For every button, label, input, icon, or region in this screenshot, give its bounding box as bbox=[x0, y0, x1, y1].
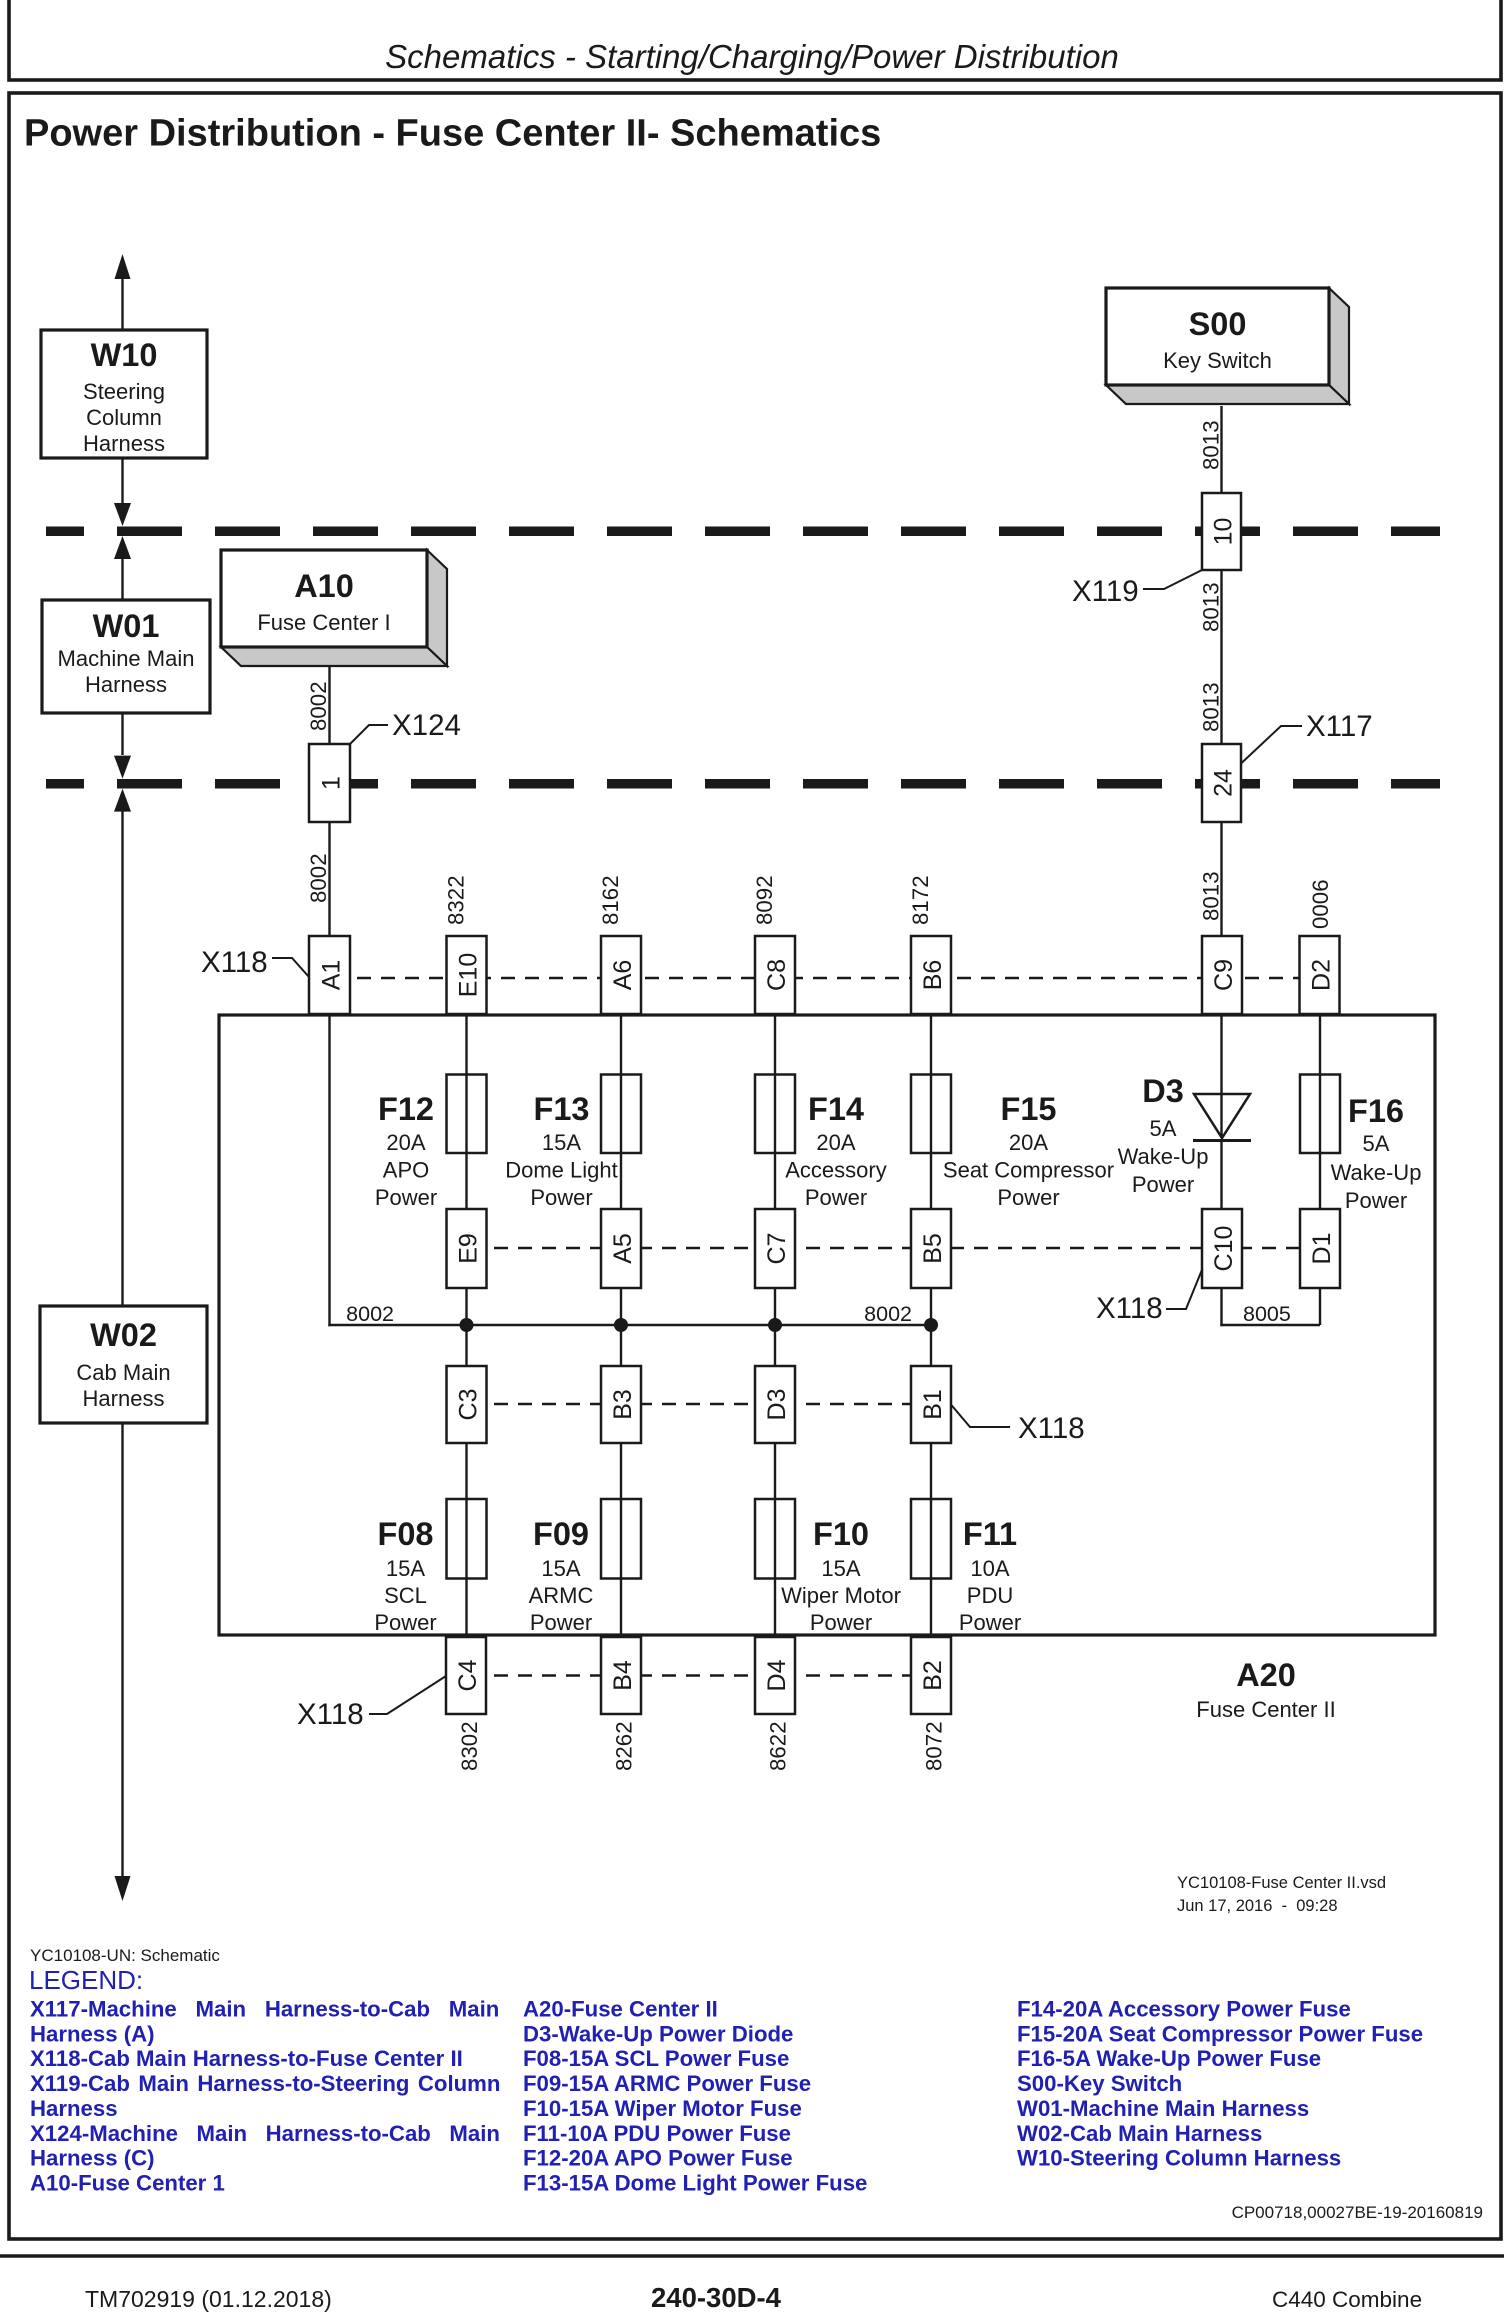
svg-text:ARMC: ARMC bbox=[529, 1583, 594, 1608]
svg-text:8013: 8013 bbox=[1199, 582, 1224, 632]
svg-text:C4: C4 bbox=[454, 1659, 482, 1691]
svg-text:W01: W01 bbox=[93, 608, 160, 644]
svg-text:Power: Power bbox=[374, 1610, 436, 1635]
svg-text:20A: 20A bbox=[816, 1130, 855, 1155]
svg-text:D3-Wake-Up Power Diode: D3-Wake-Up Power Diode bbox=[523, 2021, 793, 2046]
svg-text:24: 24 bbox=[1210, 769, 1238, 797]
svg-text:Steering: Steering bbox=[83, 379, 165, 404]
svg-text:A20-Fuse Center II: A20-Fuse Center II bbox=[523, 1997, 718, 2022]
svg-text:5A: 5A bbox=[1150, 1116, 1177, 1141]
svg-text:D4: D4 bbox=[763, 1659, 791, 1691]
svg-text:TM702919 (01.12.2018): TM702919 (01.12.2018) bbox=[85, 2286, 332, 2312]
svg-text:CP00718,00027BE-19-20160819: CP00718,00027BE-19-20160819 bbox=[1232, 2203, 1483, 2222]
svg-text:Jun 17, 2016 - 09:28: Jun 17, 2016 - 09:28 bbox=[1177, 1897, 1338, 1915]
svg-text:Harness: Harness bbox=[85, 672, 167, 697]
svg-text:F14: F14 bbox=[808, 1091, 864, 1127]
svg-text:X117: X117 bbox=[1306, 710, 1373, 743]
svg-text:240-30D-4: 240-30D-4 bbox=[651, 2282, 782, 2313]
svg-text:A1: A1 bbox=[318, 960, 346, 991]
svg-text:A10-Fuse Center 1: A10-Fuse Center 1 bbox=[30, 2170, 225, 2195]
svg-text:D3: D3 bbox=[1142, 1073, 1184, 1109]
svg-text:F11: F11 bbox=[963, 1516, 1017, 1552]
svg-text:C9: C9 bbox=[1210, 959, 1238, 991]
svg-text:X118: X118 bbox=[1018, 1412, 1085, 1445]
svg-text:A5: A5 bbox=[609, 1233, 637, 1264]
svg-text:B2: B2 bbox=[919, 1660, 947, 1691]
svg-text:W01-Machine Main Harness: W01-Machine Main Harness bbox=[1017, 2096, 1309, 2121]
svg-text:LEGEND:: LEGEND: bbox=[29, 1965, 143, 1995]
svg-text:0006: 0006 bbox=[1308, 879, 1333, 929]
svg-text:S00-Key Switch: S00-Key Switch bbox=[1017, 2071, 1182, 2096]
svg-text:15A: 15A bbox=[541, 1556, 580, 1581]
svg-text:8072: 8072 bbox=[922, 1721, 947, 1771]
svg-text:Accessory: Accessory bbox=[785, 1158, 886, 1183]
svg-text:F08: F08 bbox=[377, 1516, 433, 1552]
svg-text:Column: Column bbox=[86, 405, 162, 430]
svg-text:X117-Machine Main Harness-to-C: X117-Machine Main Harness-to-Cab Main bbox=[30, 1997, 499, 2022]
svg-text:F15-20A Seat Compressor Power: F15-20A Seat Compressor Power Fuse bbox=[1017, 2021, 1423, 2046]
svg-text:X119: X119 bbox=[1072, 575, 1139, 608]
svg-text:X118: X118 bbox=[201, 946, 268, 979]
svg-text:E9: E9 bbox=[455, 1233, 483, 1264]
svg-text:5A: 5A bbox=[1363, 1131, 1390, 1156]
svg-text:YC10108-UN: Schematic: YC10108-UN: Schematic bbox=[30, 1946, 220, 1965]
svg-text:B1: B1 bbox=[919, 1389, 947, 1420]
svg-text:C440 Combine: C440 Combine bbox=[1272, 2287, 1422, 2312]
svg-text:Power: Power bbox=[805, 1185, 867, 1210]
svg-text:8622: 8622 bbox=[766, 1721, 791, 1771]
svg-text:Fuse Center II: Fuse Center II bbox=[1196, 1697, 1335, 1722]
svg-text:8302: 8302 bbox=[457, 1721, 482, 1771]
svg-text:Wake-Up: Wake-Up bbox=[1331, 1160, 1422, 1185]
svg-text:X119-Cab Main Harness-to-Steer: X119-Cab Main Harness-to-Steering Column bbox=[30, 2071, 500, 2096]
svg-text:Power: Power bbox=[375, 1185, 437, 1210]
svg-text:C7: C7 bbox=[763, 1233, 791, 1265]
svg-text:F09: F09 bbox=[533, 1516, 589, 1552]
svg-text:APO: APO bbox=[383, 1158, 429, 1183]
svg-text:F12-20A APO Power Fuse: F12-20A APO Power Fuse bbox=[523, 2146, 793, 2171]
svg-text:20A: 20A bbox=[1009, 1130, 1048, 1155]
svg-text:X124-Machine Main Harness-to-C: X124-Machine Main Harness-to-Cab Main bbox=[30, 2121, 500, 2146]
svg-text:8002: 8002 bbox=[346, 1302, 394, 1326]
svg-text:F11-10A PDU Power Fuse: F11-10A PDU Power Fuse bbox=[523, 2121, 791, 2146]
svg-text:W02-Cab Main Harness: W02-Cab Main Harness bbox=[1017, 2121, 1262, 2146]
svg-text:Fuse Center I: Fuse Center I bbox=[257, 610, 390, 635]
svg-text:8162: 8162 bbox=[598, 875, 623, 925]
svg-text:8002: 8002 bbox=[306, 853, 331, 903]
svg-text:Wake-Up: Wake-Up bbox=[1118, 1144, 1209, 1169]
svg-text:YC10108-Fuse Center II.vsd: YC10108-Fuse Center II.vsd bbox=[1177, 1874, 1386, 1892]
svg-text:Machine Main: Machine Main bbox=[58, 646, 195, 671]
svg-text:F08-15A SCL Power Fuse: F08-15A SCL Power Fuse bbox=[523, 2046, 789, 2071]
svg-text:W10: W10 bbox=[91, 337, 158, 373]
svg-text:W02: W02 bbox=[90, 1317, 157, 1353]
svg-text:Power: Power bbox=[1132, 1172, 1194, 1197]
svg-text:10: 10 bbox=[1210, 518, 1238, 546]
svg-text:8013: 8013 bbox=[1199, 871, 1224, 921]
svg-text:Harness: Harness bbox=[30, 2096, 118, 2121]
svg-text:15A: 15A bbox=[542, 1130, 581, 1155]
svg-text:D3: D3 bbox=[763, 1389, 791, 1421]
svg-text:Power: Power bbox=[997, 1185, 1059, 1210]
svg-text:Power: Power bbox=[530, 1610, 592, 1635]
svg-text:F15: F15 bbox=[1000, 1091, 1056, 1127]
svg-text:C3: C3 bbox=[455, 1389, 483, 1421]
svg-text:1: 1 bbox=[318, 776, 346, 790]
svg-text:8172: 8172 bbox=[908, 875, 933, 925]
svg-text:Key Switch: Key Switch bbox=[1163, 348, 1272, 373]
svg-text:C8: C8 bbox=[763, 959, 791, 991]
svg-text:F10-15A Wiper Motor Fuse: F10-15A Wiper Motor Fuse bbox=[523, 2096, 802, 2121]
svg-text:B5: B5 bbox=[919, 1233, 947, 1264]
svg-text:F16-5A Wake-Up Power Fuse: F16-5A Wake-Up Power Fuse bbox=[1017, 2046, 1321, 2071]
svg-text:SCL: SCL bbox=[384, 1583, 427, 1608]
svg-text:8262: 8262 bbox=[612, 1721, 637, 1771]
svg-text:X118: X118 bbox=[1096, 1292, 1163, 1325]
svg-text:8005: 8005 bbox=[1243, 1302, 1291, 1326]
svg-text:F13: F13 bbox=[533, 1091, 589, 1127]
svg-text:Power: Power bbox=[959, 1610, 1021, 1635]
svg-text:8092: 8092 bbox=[752, 875, 777, 925]
svg-text:Power: Power bbox=[810, 1610, 872, 1635]
svg-text:A10: A10 bbox=[294, 568, 354, 604]
svg-text:8013: 8013 bbox=[1199, 420, 1224, 470]
svg-text:Cab Main: Cab Main bbox=[76, 1360, 170, 1385]
svg-text:B3: B3 bbox=[609, 1389, 637, 1420]
svg-text:F12: F12 bbox=[378, 1091, 434, 1127]
svg-text:W10-Steering Column Harness: W10-Steering Column Harness bbox=[1017, 2146, 1341, 2171]
svg-text:Harness: Harness bbox=[83, 1386, 165, 1411]
svg-text:Power: Power bbox=[530, 1185, 592, 1210]
svg-text:15A: 15A bbox=[386, 1556, 425, 1581]
svg-text:C10: C10 bbox=[1210, 1226, 1238, 1272]
svg-text:15A: 15A bbox=[821, 1556, 860, 1581]
svg-text:Dome Light: Dome Light bbox=[505, 1158, 618, 1183]
svg-text:A6: A6 bbox=[609, 960, 637, 991]
svg-text:B4: B4 bbox=[609, 1660, 637, 1691]
svg-text:E10: E10 bbox=[455, 953, 483, 997]
svg-text:X118: X118 bbox=[297, 1698, 364, 1731]
svg-text:F09-15A ARMC Power Fuse: F09-15A ARMC Power Fuse bbox=[523, 2071, 811, 2096]
svg-text:Harness (A): Harness (A) bbox=[30, 2021, 155, 2046]
svg-text:F14-20A Accessory Power Fuse: F14-20A Accessory Power Fuse bbox=[1017, 1997, 1351, 2022]
svg-text:D2: D2 bbox=[1308, 959, 1336, 991]
svg-text:Harness: Harness bbox=[83, 431, 165, 456]
svg-text:A20: A20 bbox=[1236, 1657, 1296, 1693]
svg-text:D1: D1 bbox=[1308, 1233, 1336, 1265]
svg-text:F16: F16 bbox=[1348, 1093, 1404, 1129]
svg-text:Power: Power bbox=[1345, 1188, 1407, 1213]
svg-text:B6: B6 bbox=[919, 960, 947, 991]
svg-text:Power Distribution - Fuse Cent: Power Distribution - Fuse Center II- Sch… bbox=[24, 113, 881, 155]
svg-text:Schematics - Starting/Charging: Schematics - Starting/Charging/Power Dis… bbox=[385, 38, 1119, 75]
svg-text:Seat Compressor: Seat Compressor bbox=[943, 1158, 1114, 1183]
svg-text:20A: 20A bbox=[386, 1130, 425, 1155]
svg-text:8002: 8002 bbox=[306, 681, 331, 731]
svg-text:X124: X124 bbox=[392, 709, 461, 742]
svg-text:Harness (C): Harness (C) bbox=[30, 2146, 155, 2171]
svg-text:8013: 8013 bbox=[1199, 682, 1224, 732]
svg-text:PDU: PDU bbox=[967, 1583, 1013, 1608]
svg-text:F13-15A Dome Light Power Fuse: F13-15A Dome Light Power Fuse bbox=[523, 2170, 867, 2195]
svg-text:Wiper Motor: Wiper Motor bbox=[781, 1583, 901, 1608]
svg-text:X118-Cab Main Harness-to-Fuse: X118-Cab Main Harness-to-Fuse Center II bbox=[30, 2046, 463, 2071]
svg-text:S00: S00 bbox=[1189, 306, 1247, 342]
svg-text:8002: 8002 bbox=[864, 1302, 912, 1326]
svg-text:10A: 10A bbox=[970, 1556, 1009, 1581]
svg-text:8322: 8322 bbox=[444, 875, 469, 925]
svg-text:F10: F10 bbox=[813, 1516, 869, 1552]
